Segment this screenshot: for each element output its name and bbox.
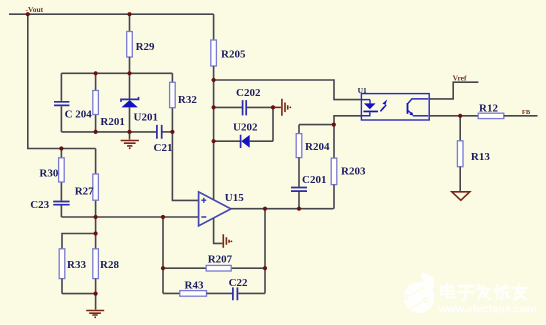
resistor R12 bbox=[478, 102, 537, 118]
wire R33 R28 loop bottom bbox=[62, 293, 96, 295]
resistor R29 bbox=[127, 32, 133, 58]
wire R29 top lead bbox=[129, 14, 131, 31]
wire R205 bottom lead bbox=[213, 66, 215, 141]
wire subcircuit bottom rail right bbox=[162, 131, 173, 133]
watermark chinese text bbox=[441, 284, 527, 300]
optocoupler U1 bbox=[358, 86, 430, 120]
svg-text:R30: R30 bbox=[39, 167, 58, 179]
svg-text:Vref: Vref bbox=[453, 74, 467, 83]
resistor R28 bbox=[93, 217, 120, 294]
capacitor C22 bbox=[229, 277, 265, 300]
resistor R30 bbox=[39, 149, 64, 201]
resistor R27 bbox=[75, 149, 99, 218]
opto light arrow bbox=[380, 99, 387, 111]
wire R205 top lead bbox=[213, 14, 215, 40]
wire op-amp output rail bbox=[231, 208, 334, 210]
wire subcircuit top rail bbox=[61, 72, 172, 74]
wire feedback drop bbox=[162, 217, 164, 293]
svg-text:C 204: C 204 bbox=[65, 108, 93, 120]
svg-text:R32: R32 bbox=[178, 94, 197, 106]
svg-text:R204: R204 bbox=[305, 141, 330, 153]
capacitor C201 bbox=[291, 174, 326, 209]
wire Vref link bbox=[429, 82, 478, 99]
wire noninverting input drop bbox=[172, 132, 198, 201]
wire left drop from -Vout rail bbox=[28, 14, 96, 148]
resistor R207 bbox=[206, 253, 232, 271]
svg-text:R33: R33 bbox=[67, 259, 86, 271]
wire R204 top link bbox=[299, 124, 334, 126]
opto phototransistor bbox=[407, 99, 429, 116]
svg-text:R43: R43 bbox=[185, 280, 204, 292]
resistor R13 bbox=[457, 116, 490, 192]
zener diode U201 bbox=[121, 73, 158, 132]
wire top -Vout rail bbox=[9, 13, 214, 15]
ground under U201 bbox=[121, 132, 139, 149]
op-amp U15 bbox=[199, 192, 245, 226]
resistor R205 bbox=[211, 40, 246, 66]
wire C202 U202 right link bbox=[272, 107, 274, 141]
zener diode U202 bbox=[214, 122, 273, 148]
svg-text:U202: U202 bbox=[233, 122, 258, 134]
ground under op-amp bbox=[214, 218, 233, 248]
wire inverting input bus bbox=[61, 216, 198, 218]
svg-text:U15: U15 bbox=[225, 192, 244, 204]
resistor R203 bbox=[331, 158, 366, 209]
svg-text:R207: R207 bbox=[208, 253, 233, 265]
svg-text:FB: FB bbox=[522, 109, 531, 116]
svg-text:www.elecfans.com: www.elecfans.com bbox=[438, 304, 537, 316]
wire opto anode path bbox=[214, 80, 362, 100]
wire R29 bottom lead bbox=[129, 57, 131, 73]
resistor R201 bbox=[93, 73, 125, 132]
wire opto cathode path bbox=[334, 116, 361, 158]
wire subcircuit bottom rail left bbox=[61, 131, 156, 133]
resistor R33 bbox=[59, 249, 86, 294]
opto LED bbox=[361, 100, 378, 116]
svg-text:C201: C201 bbox=[302, 174, 326, 186]
ground triangle under R13 bbox=[452, 192, 470, 201]
svg-text:C22: C22 bbox=[229, 277, 248, 289]
capacitor C23 bbox=[30, 199, 69, 217]
resistor R204 bbox=[296, 125, 330, 187]
svg-text:C23: C23 bbox=[30, 199, 49, 211]
ground right of C202 bbox=[273, 99, 291, 116]
resistor R32 bbox=[170, 73, 198, 132]
capacitor C204 bbox=[54, 73, 92, 132]
wire R207 rail bbox=[163, 267, 265, 269]
wire op-amp V+ pin bbox=[213, 141, 215, 199]
svg-text:C21: C21 bbox=[154, 142, 173, 154]
svg-text:C202: C202 bbox=[236, 87, 261, 99]
capacitor C202 bbox=[214, 87, 273, 116]
svg-text:R29: R29 bbox=[136, 41, 155, 53]
svg-text:R13: R13 bbox=[471, 151, 490, 163]
svg-text:U1: U1 bbox=[358, 86, 367, 95]
capacitor C21 bbox=[154, 125, 173, 154]
svg-text:R205: R205 bbox=[221, 49, 246, 61]
svg-text:R203: R203 bbox=[341, 166, 366, 178]
svg-text:U201: U201 bbox=[134, 112, 158, 124]
wire R33 R28 loop top bbox=[62, 234, 96, 249]
ground under R28 bbox=[86, 294, 104, 319]
wire opto emitter out bbox=[429, 115, 478, 117]
resistor R43 bbox=[163, 280, 232, 297]
svg-text:R27: R27 bbox=[75, 186, 94, 198]
svg-text:R12: R12 bbox=[479, 102, 498, 114]
svg-text:R28: R28 bbox=[100, 259, 119, 271]
wire output to feedback right riser bbox=[264, 209, 266, 294]
svg-text:R201: R201 bbox=[100, 116, 124, 128]
watermark logo bbox=[404, 274, 435, 314]
